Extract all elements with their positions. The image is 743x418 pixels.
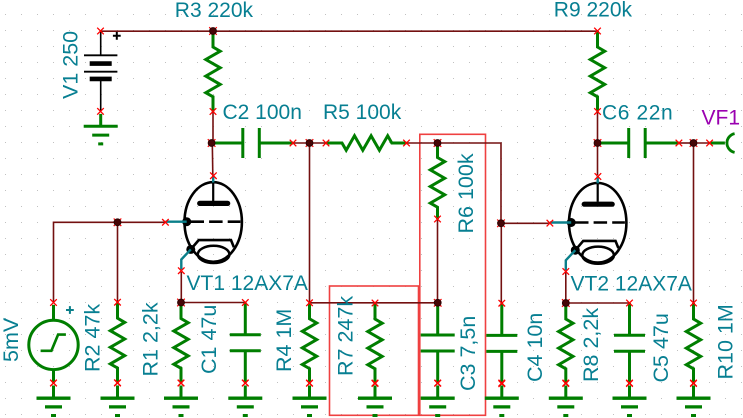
ground below R10 bbox=[677, 380, 711, 416]
capacitor C3 7,5n bbox=[421, 303, 455, 387]
ground below C3 bbox=[421, 380, 455, 416]
wire R3 to plate node bbox=[212, 111, 214, 143]
svg-text:R7 247k: R7 247k bbox=[334, 296, 358, 376]
triode VT2 12AX7A bbox=[547, 173, 627, 275]
svg-text:C1 47u: C1 47u bbox=[197, 305, 221, 374]
capacitor C2 100n bbox=[212, 128, 297, 158]
resistor R8 2,2k bbox=[559, 303, 573, 387]
wire C6 to output node bbox=[679, 142, 694, 144]
svg-text:R1 2,2k: R1 2,2k bbox=[139, 302, 163, 376]
selection box around R6/C3 bbox=[420, 134, 486, 415]
wire V+ rail bbox=[101, 30, 598, 32]
svg-text:R4 1M: R4 1M bbox=[272, 309, 296, 372]
wire output node down to R10 bbox=[693, 143, 695, 303]
junction plate node VT1 bbox=[208, 139, 216, 147]
wire C6 node down to VT2 anode bbox=[597, 143, 599, 175]
wire source to input node bbox=[54, 222, 166, 302]
wire R6 node to VT2 grid bbox=[438, 143, 549, 223]
junction node A bbox=[306, 139, 314, 147]
resistor R2 47k bbox=[110, 299, 124, 386]
svg-text:R10 1M: R10 1M bbox=[714, 304, 738, 379]
ground below V1 bbox=[84, 114, 118, 144]
ground below C5 bbox=[613, 380, 647, 416]
svg-text:R2 47k: R2 47k bbox=[81, 304, 105, 372]
wire node A down to R4 bbox=[309, 143, 311, 303]
resistor R1 2,2k bbox=[174, 303, 188, 387]
svg-text:R3 220k: R3 220k bbox=[175, 0, 254, 22]
wire plate node down to VT1 anode bbox=[211, 143, 214, 175]
capacitor C4 10n bbox=[486, 300, 517, 387]
svg-text:5mV: 5mV bbox=[0, 317, 23, 362]
junction C3 node bbox=[434, 299, 442, 307]
svg-text:C5 47u: C5 47u bbox=[649, 313, 673, 382]
wire VT2 cathode down bbox=[565, 272, 567, 303]
wire VT1 cathode down bbox=[180, 272, 182, 303]
capacitor C1 47u bbox=[230, 299, 261, 386]
junction VT2 grid node bbox=[497, 220, 505, 228]
svg-text:VF1: VF1 bbox=[702, 106, 741, 129]
svg-text:V1 250: V1 250 bbox=[59, 31, 83, 99]
output terminal VF1 bbox=[706, 134, 734, 153]
junction input node bbox=[114, 219, 122, 227]
capacitor C6 22n bbox=[598, 128, 683, 158]
ground below R4 bbox=[293, 380, 327, 416]
ground below source bbox=[37, 380, 71, 416]
wire R4 to R7 to C3 node bbox=[310, 302, 438, 304]
wire R6 down to C3 node bbox=[437, 219, 439, 303]
wire grid node down to C4 bbox=[500, 223, 502, 303]
junction output node bbox=[690, 139, 698, 147]
wire cathode node to C5 bbox=[566, 302, 630, 304]
svg-text:R6 100k: R6 100k bbox=[454, 153, 478, 233]
svg-text:C6 22n: C6 22n bbox=[602, 102, 673, 125]
wire node A to R5 bbox=[310, 142, 327, 144]
ground below C1 bbox=[228, 380, 262, 416]
svg-text:R8 2,2k: R8 2,2k bbox=[579, 308, 603, 382]
battery V1 bbox=[84, 28, 121, 115]
triode VT1 12AX7A bbox=[162, 172, 242, 274]
junction R3 top bbox=[209, 27, 217, 35]
ground below R1 bbox=[164, 380, 198, 416]
junction VT2 cathode node bbox=[562, 299, 570, 307]
wire input node down to R2 bbox=[117, 222, 119, 302]
wire R5 to R6 node bbox=[407, 142, 438, 144]
junction R6 top bbox=[434, 139, 442, 147]
resistor R6 100k bbox=[430, 143, 444, 222]
wire R9 to C6 node bbox=[597, 111, 599, 144]
resistor R10 1M bbox=[686, 300, 700, 387]
svg-text:C4 10n: C4 10n bbox=[523, 313, 547, 382]
wire cathode node to C1 bbox=[181, 302, 245, 304]
svg-text:C2 100n: C2 100n bbox=[223, 101, 302, 124]
svg-text:C3 7,5n: C3 7,5n bbox=[456, 316, 480, 391]
wire output node to VF1 pin bbox=[694, 142, 710, 144]
resistor R4 1M bbox=[302, 300, 316, 387]
svg-text:VT1 12AX7A: VT1 12AX7A bbox=[187, 272, 308, 295]
ground below R7 bbox=[358, 380, 392, 416]
signal source 5mV bbox=[29, 299, 78, 386]
junction VT1 cathode node bbox=[177, 299, 185, 307]
svg-text:R5 100k: R5 100k bbox=[323, 101, 402, 124]
ground below C4 bbox=[485, 380, 519, 416]
junction R9/C6 node bbox=[594, 139, 602, 147]
svg-text:R9 220k: R9 220k bbox=[554, 0, 633, 21]
ground below R8 bbox=[549, 380, 583, 416]
svg-text:VT2 12AX7A: VT2 12AX7A bbox=[571, 273, 692, 296]
resistor R7 247k bbox=[368, 300, 382, 387]
ground below R2 bbox=[101, 380, 135, 416]
resistor R5 100k bbox=[323, 136, 410, 150]
selection box around R7 bbox=[330, 286, 419, 415]
wire C2 to node A bbox=[293, 142, 310, 144]
capacitor C5 47u bbox=[614, 300, 645, 387]
resistor R9 220k bbox=[590, 28, 604, 115]
resistor R3 220k bbox=[206, 31, 220, 115]
